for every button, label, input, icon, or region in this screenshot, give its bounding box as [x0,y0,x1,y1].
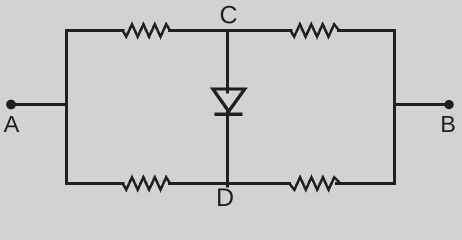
svg-text:A: A [4,111,20,137]
svg-text:C: C [220,2,238,30]
svg-text:D: D [216,184,234,212]
svg-text:B: B [440,111,456,137]
